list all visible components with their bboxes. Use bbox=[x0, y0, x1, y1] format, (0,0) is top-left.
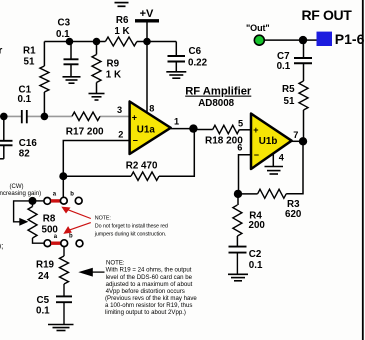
wire top rail right segment bbox=[137, 41, 176, 43]
wire junction to P1-6 bbox=[303, 39, 317, 41]
svg-text:0.1: 0.1 bbox=[249, 260, 263, 271]
wire feedback to R2 bbox=[63, 175, 131, 177]
svg-text:);: ); bbox=[0, 242, 3, 251]
svg-text:0.1: 0.1 bbox=[56, 29, 70, 40]
svg-text:NOTE:: NOTE: bbox=[95, 216, 111, 222]
svg-text:P1-6: P1-6 bbox=[335, 31, 365, 47]
jumper red link row1 bbox=[51, 199, 61, 202]
svg-text:RF OUT: RF OUT bbox=[302, 7, 353, 23]
svg-text:C2: C2 bbox=[249, 249, 262, 260]
svg-text:5: 5 bbox=[238, 118, 243, 128]
resistor R5 bbox=[303, 110, 305, 141]
svg-text:R2 470: R2 470 bbox=[126, 161, 158, 172]
ground (cut off at top edge) bbox=[115, 2, 129, 4]
node C3 junction bbox=[66, 38, 74, 46]
svg-text:6: 6 bbox=[237, 143, 242, 153]
svg-text:51: 51 bbox=[24, 57, 35, 68]
svg-text:−: − bbox=[133, 135, 138, 145]
capacitor C16 bbox=[3, 116, 5, 140]
wire top rail left segment bbox=[44, 41, 105, 43]
wire pot top node left bbox=[14, 201, 33, 222]
wire pot node to jumper a bbox=[33, 200, 44, 202]
svg-text:+: + bbox=[253, 125, 258, 135]
svg-text:r: r bbox=[0, 46, 3, 57]
svg-text:With R19 = 24 ohms, the output: With R19 = 24 ohms, the output bbox=[106, 267, 192, 274]
node Out green terminal bbox=[254, 35, 264, 45]
node R9 junction bbox=[93, 38, 101, 46]
svg-text:4Vpp before distortion occurs: 4Vpp before distortion occurs bbox=[106, 288, 185, 295]
svg-text:"Out": "Out" bbox=[246, 23, 270, 33]
wiper arrow of R8 bbox=[19, 218, 28, 226]
svg-text:+: + bbox=[132, 113, 137, 123]
svg-text:C5: C5 bbox=[37, 295, 50, 306]
capacitor C3 bbox=[70, 42, 72, 60]
svg-text:jumpers during kit constructio: jumpers during kit construction. bbox=[94, 232, 166, 238]
node R1 bottom junction bbox=[41, 113, 49, 121]
wire U1b output bbox=[292, 140, 303, 142]
resistor R2 bbox=[131, 172, 159, 180]
svg-text:R17 200: R17 200 bbox=[66, 127, 104, 138]
svg-text:1 K: 1 K bbox=[114, 26, 129, 37]
jumper red link row2 bbox=[51, 241, 61, 244]
svg-text:C6: C6 bbox=[189, 46, 202, 57]
svg-text:0.1: 0.1 bbox=[36, 305, 50, 316]
red arrow to jumper row2 bbox=[68, 223, 91, 231]
svg-text:−: − bbox=[254, 150, 259, 160]
node U1b output junction bbox=[299, 137, 307, 145]
red arrow to jumper row1 bbox=[66, 209, 91, 219]
svg-text:(CW): (CW) bbox=[10, 184, 24, 190]
node input left bbox=[0, 113, 8, 121]
svg-text:620: 620 bbox=[285, 209, 302, 220]
svg-text:R6: R6 bbox=[116, 15, 129, 26]
svg-text:Do not forget to install these: Do not forget to install these red bbox=[95, 224, 168, 230]
svg-text:NOTE:: NOTE: bbox=[106, 259, 125, 266]
node U1a output junction bbox=[189, 124, 197, 132]
resistor R17 bbox=[72, 112, 100, 120]
svg-text:b: b bbox=[69, 233, 73, 239]
op-amp U1b bbox=[251, 114, 292, 169]
jumper pad row2 a bbox=[44, 240, 51, 247]
svg-text:1: 1 bbox=[174, 117, 179, 127]
wire input signal (gray) bbox=[0, 115, 22, 117]
resistor R19 bbox=[60, 256, 69, 284]
border frame edge (cropped box at right) bbox=[362, 0, 364, 340]
wire jumper row2 b to R19 bbox=[63, 247, 65, 256]
jumper pad row1 b bbox=[60, 197, 67, 204]
capacitor C7 bbox=[294, 57, 312, 59]
svg-text:82: 82 bbox=[19, 148, 30, 159]
resistor R3 bbox=[238, 193, 258, 195]
jumper pad row1 spare bbox=[75, 197, 82, 204]
wire pin 2 input bbox=[63, 141, 129, 198]
svg-text:200: 200 bbox=[249, 220, 266, 231]
node RF out junction bbox=[299, 36, 307, 44]
svg-text:R3: R3 bbox=[287, 199, 300, 210]
ground under C6 bbox=[166, 71, 186, 73]
svg-text:0.1: 0.1 bbox=[18, 94, 32, 105]
svg-text:3: 3 bbox=[117, 105, 122, 115]
resistor R9 bbox=[96, 42, 98, 55]
svg-text:U1a: U1a bbox=[137, 125, 156, 136]
op-amp U1a bbox=[130, 102, 171, 155]
svg-text:R5: R5 bbox=[282, 84, 295, 95]
black arrow to R19 bbox=[90, 271, 105, 273]
connector P1-6 blue pad bbox=[317, 32, 333, 46]
wire U1a output bbox=[171, 128, 194, 130]
wire pin 6 bbox=[239, 155, 252, 194]
jumper pad row2 spare bbox=[76, 240, 83, 247]
ground under R9 bbox=[89, 93, 105, 95]
svg-text:R9: R9 bbox=[107, 58, 120, 69]
node +V junction bbox=[143, 38, 151, 46]
wire +V drop bbox=[146, 23, 148, 42]
node feedback junction bbox=[59, 172, 67, 180]
svg-text:a: a bbox=[53, 191, 57, 197]
power +V rail bar bbox=[135, 19, 159, 22]
svg-text:C3: C3 bbox=[58, 18, 71, 29]
svg-text:limiting output to about 2Vpp.: limiting output to about 2Vpp.) bbox=[105, 309, 186, 316]
resistor R8 potentiometer bbox=[32, 201, 34, 207]
svg-text:8: 8 bbox=[149, 104, 154, 114]
wire R2 to output node bbox=[159, 129, 194, 177]
wire pin8 drop from +V node bbox=[146, 42, 148, 114]
node U1b inverting junction bbox=[234, 190, 242, 198]
svg-text:24: 24 bbox=[38, 271, 49, 282]
resistor R1 bbox=[43, 42, 45, 67]
svg-text:b: b bbox=[70, 192, 74, 198]
wire Out to junction bbox=[265, 39, 304, 41]
ground under C5 bbox=[48, 324, 74, 326]
resistor R4 bbox=[237, 194, 239, 205]
capacitor C6 bbox=[175, 42, 177, 57]
svg-text:adjusted to a maximum of about: adjusted to a maximum of about bbox=[106, 281, 193, 288]
capacitor C2 bbox=[229, 246, 247, 248]
svg-text:R8: R8 bbox=[43, 213, 56, 224]
svg-text:RF Amplifier: RF Amplifier bbox=[185, 86, 252, 98]
svg-text:U1b: U1b bbox=[259, 136, 278, 147]
resistor R18 bbox=[193, 129, 212, 131]
svg-text:7: 7 bbox=[293, 130, 298, 140]
capacitor C5 bbox=[56, 295, 72, 297]
svg-text:AD8008: AD8008 bbox=[198, 98, 234, 109]
svg-text:0.22: 0.22 bbox=[188, 58, 208, 69]
svg-text:2: 2 bbox=[118, 129, 123, 139]
ground pin 4 of U1b bbox=[272, 154, 274, 166]
jumper pad row2 b bbox=[61, 240, 68, 247]
svg-text:level of the DDS-60 card can b: level of the DDS-60 card can be bbox=[106, 274, 193, 281]
svg-text:R19: R19 bbox=[36, 260, 55, 271]
svg-text:0.1: 0.1 bbox=[277, 61, 291, 72]
svg-text:1 K: 1 K bbox=[106, 70, 121, 81]
svg-text:4: 4 bbox=[279, 152, 285, 162]
capacitor C1 bbox=[21, 110, 23, 123]
resistor R6 bbox=[105, 37, 136, 46]
ground under C2 bbox=[228, 273, 248, 275]
svg-text:R1: R1 bbox=[23, 46, 36, 57]
svg-text:+V: +V bbox=[140, 8, 154, 20]
node pot top bbox=[29, 197, 37, 205]
ground under C3 bbox=[63, 76, 81, 78]
svg-text:ncreasing gain): ncreasing gain) bbox=[0, 190, 41, 197]
jumper pad row1 a bbox=[44, 198, 51, 205]
svg-text:51: 51 bbox=[284, 96, 295, 107]
